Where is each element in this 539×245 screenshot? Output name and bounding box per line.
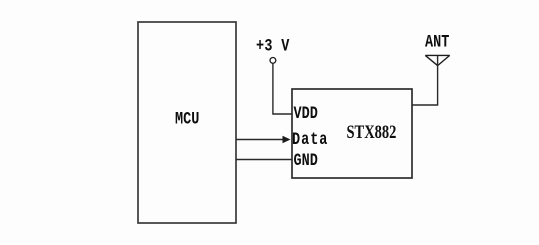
svg-text:STX882: STX882: [347, 121, 397, 142]
svg-text:+3 V: +3 V: [256, 36, 290, 56]
svg-text:ANT: ANT: [425, 32, 449, 52]
svg-text:GND: GND: [294, 151, 318, 171]
svg-text:Data: Data: [292, 130, 328, 150]
svg-text:VDD: VDD: [294, 103, 318, 123]
svg-text:MCU: MCU: [175, 109, 199, 129]
